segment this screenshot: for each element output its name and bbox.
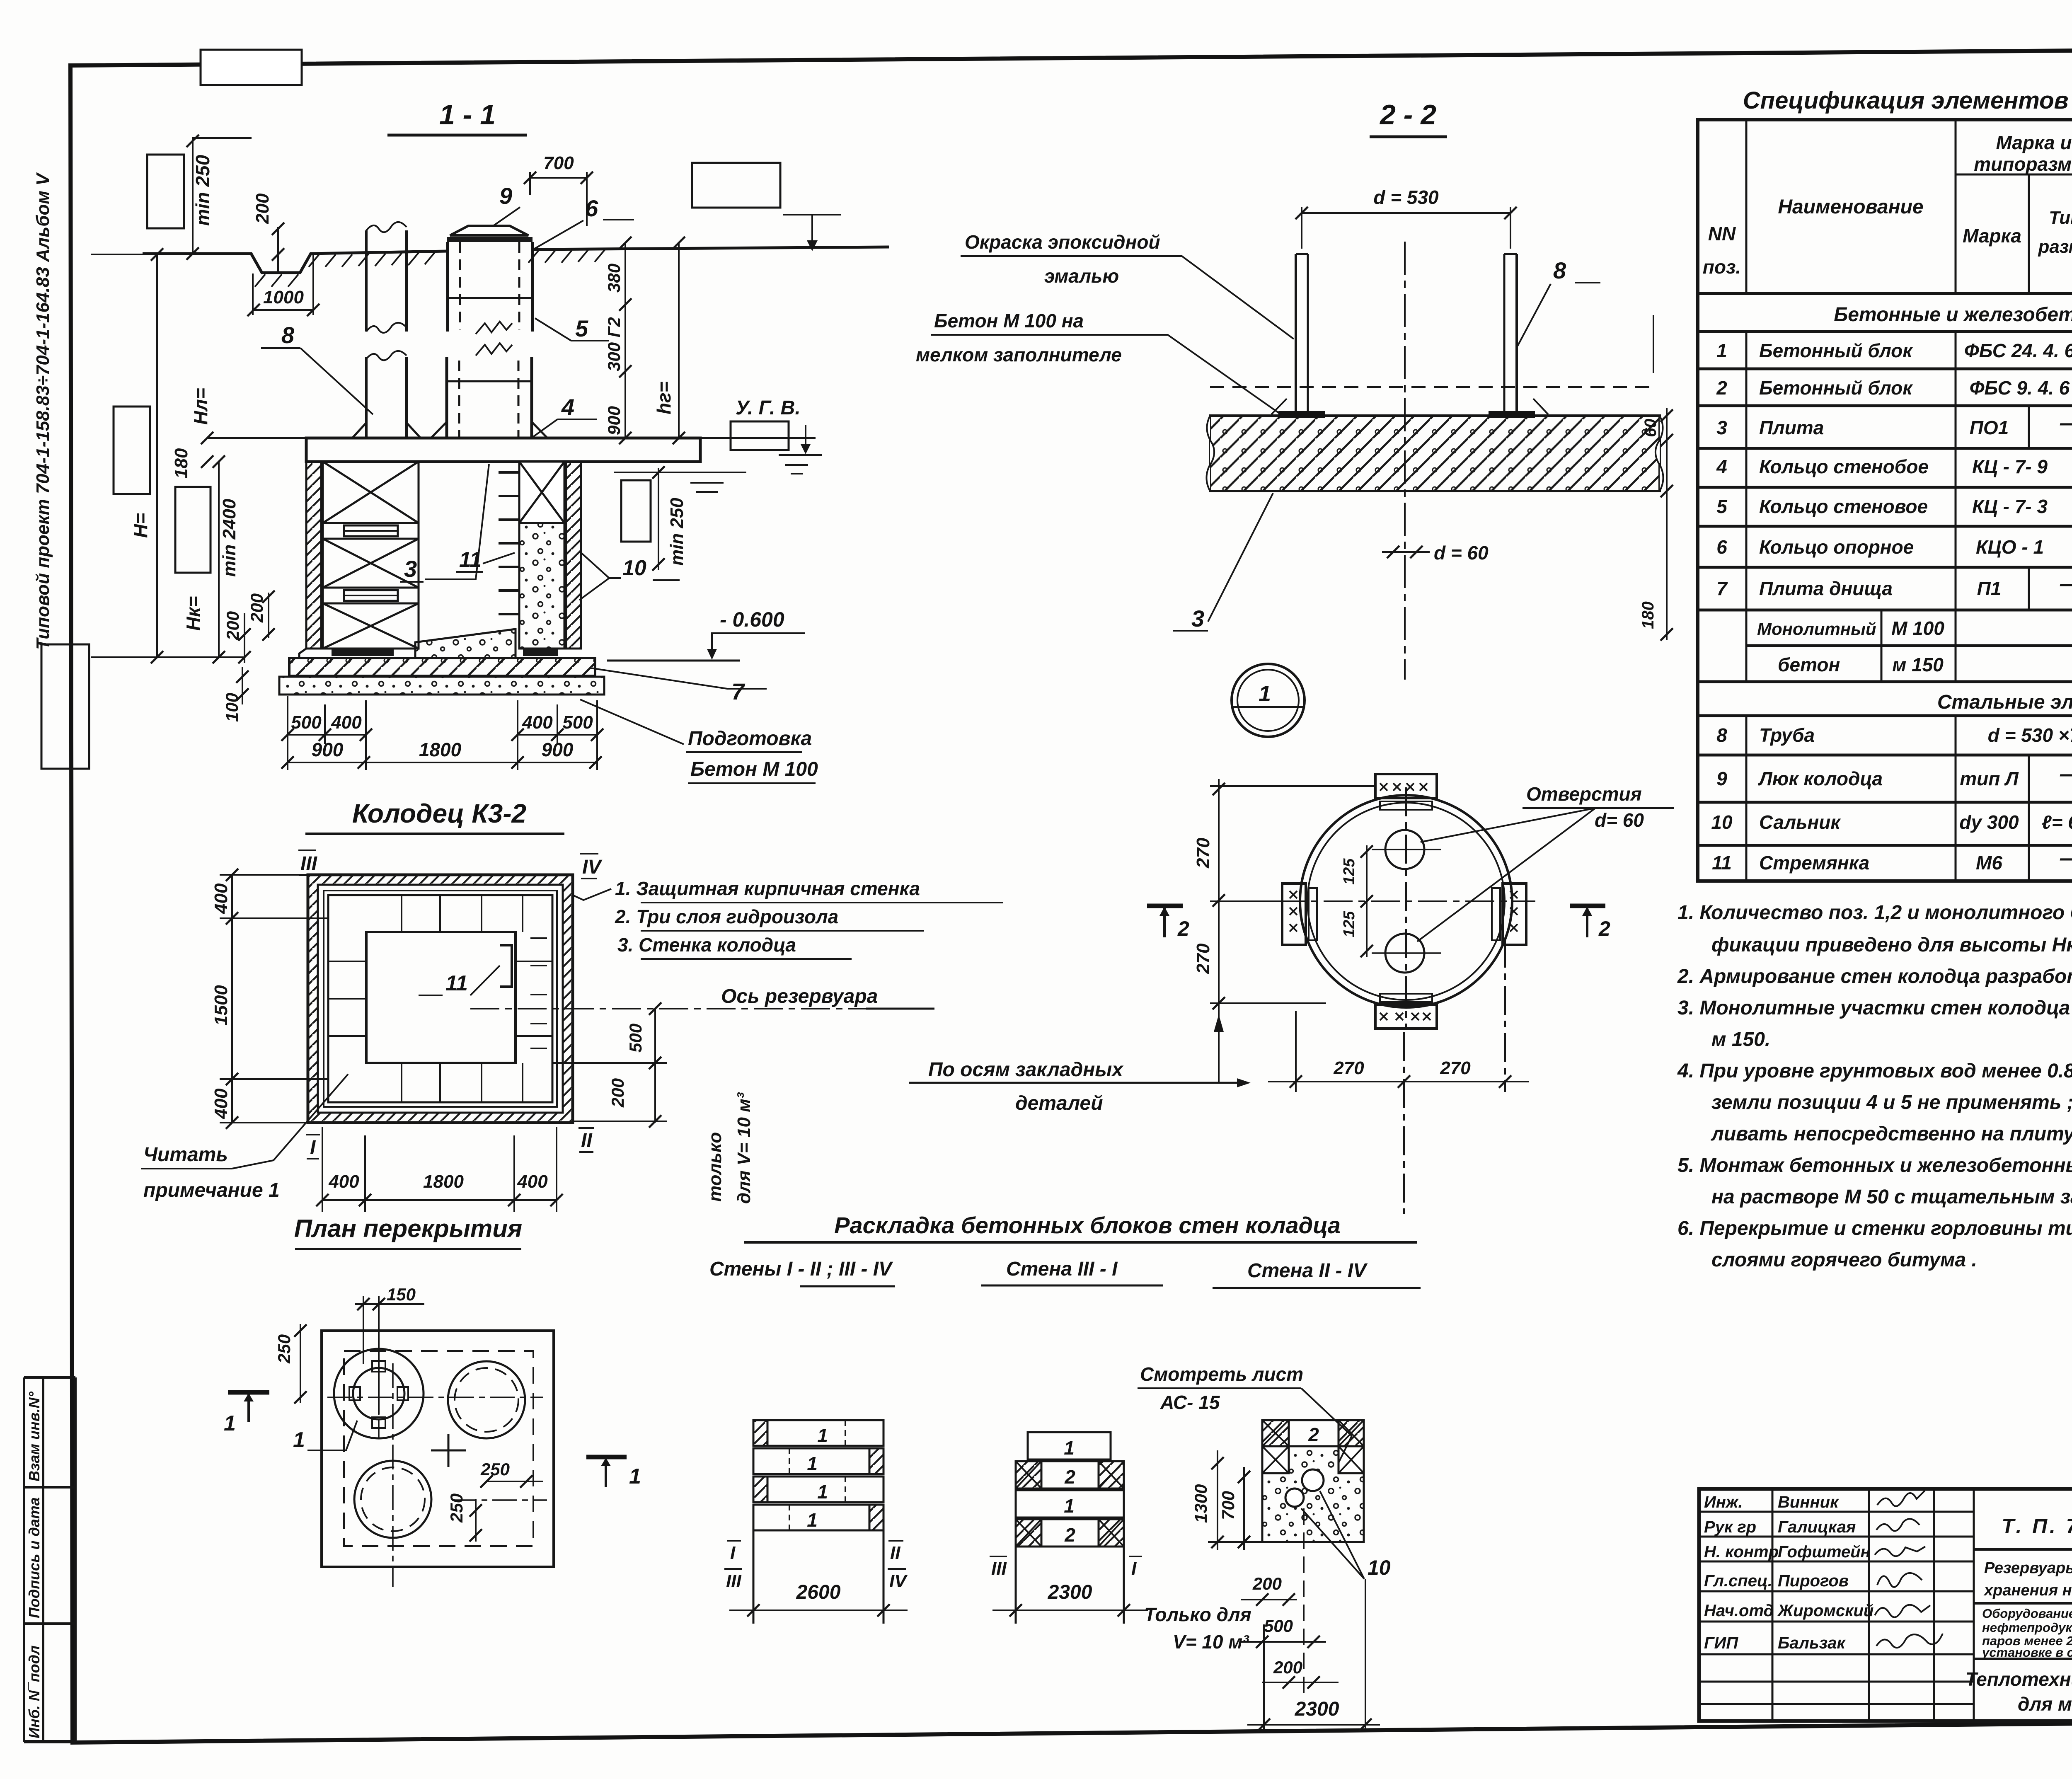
bottom dims 900 1800 900 [288,762,597,763]
svg-text:Кольцо стеновое: Кольцо стеновое [1759,496,1928,517]
svg-text:Типовой проект 704-1-158.8: Типовой проект 704-1-158.83÷704-1-164.83… [33,172,53,650]
svg-text:КЦ - 7- 9: КЦ - 7- 9 [1972,456,2048,477]
svg-text:—: — [2060,572,2072,596]
svg-text:Люк колодца: Люк колодца [1758,768,1883,789]
svg-text:ФБС 9. 4. 6 -т: ФБС 9. 4. 6 -т [1970,377,2072,399]
centerline [1404,242,1406,680]
svg-text:270: 270 [1193,837,1213,869]
svg-text:3: 3 [1191,605,1204,632]
buried level dashed [1210,386,1658,388]
svg-text:9: 9 [1716,768,1727,789]
RASKLADKA [709,1212,1421,1731]
svg-text:250: 250 [274,1334,294,1364]
svg-text:ФБС 24. 4. 6 -т: ФБС 24. 4. 6 -т [1964,340,2072,361]
svg-text:10: 10 [1711,811,1733,833]
well ring plan outer circle [1300,795,1512,1007]
svg-text:III: III [300,853,318,875]
svg-text:II: II [581,1130,593,1152]
PLAN1 [141,799,1003,1212]
svg-text:1: 1 [1064,1437,1075,1459]
water level symbol [805,425,806,444]
svg-text:нефтепродуктов с давлением: нефтепродуктов с давлением насыщенных [1982,1620,2072,1635]
svg-text:900: 900 [604,406,624,435]
svg-text:125: 125 [1341,858,1358,885]
bottom dim 270 270 [1268,1081,1529,1082]
left wall footing [299,649,366,658]
svg-text:поз.: поз. [1703,256,1741,278]
right wall hatched band [566,462,581,649]
svg-text:Оборудование резервуаров для: Оборудование резервуаров для хранения [1982,1606,2072,1621]
dim 700 [530,177,587,179]
svg-text:2: 2 [1598,917,1610,940]
svg-text:2. Армирование стен колодца: 2. Армирование стен колодца разработана … [1677,966,2072,988]
svg-text:Бетон М 100: Бетон М 100 [690,758,818,780]
ladder bracket poz 11 in plan [500,945,512,987]
diagram 1 wall edges [753,1530,755,1624]
signature squiggles [1875,1491,1943,1648]
embedded pad bottom [1375,1004,1437,1029]
section mark 2 right [1570,904,1605,908]
left wall X block 2 [323,539,419,588]
svg-text:Инб. N¯подл: Инб. N¯подл [26,1646,43,1738]
svg-text:Бетонный блок: Бетонный блок [1759,377,1913,399]
white patch box top [201,50,302,85]
svg-text:Сальник: Сальник [1759,811,1841,833]
svg-text:100: 100 [222,693,242,722]
svg-text:Нач.отд: Нач.отд [1704,1602,1774,1620]
svg-text:300 Г2: 300 Г2 [604,317,624,371]
svg-text:1300: 1300 [1191,1484,1210,1523]
pipe walls [1295,254,1297,416]
left wall base plate [332,649,394,656]
svg-text:min 250: min 250 [667,498,687,566]
centrelines [327,1397,543,1398]
svg-text:200: 200 [1252,1574,1282,1593]
section mark 2 left [1147,904,1183,908]
diagram 3 monolith body [1262,1446,1364,1542]
svg-text:1. Защитная кирпичная стенк: 1. Защитная кирпичная стенка [615,878,920,899]
gland holes [1302,1469,1324,1491]
svg-text:500: 500 [562,712,593,733]
svg-text:—: — [2060,846,2072,870]
svg-text:400: 400 [331,712,362,733]
svg-text:4: 4 [561,394,574,420]
SPECTABLE [1653,87,2072,881]
svg-text:Жиромский: Жиромский [1777,1602,1874,1620]
dim line Hk min 2400 [218,462,220,657]
dashes right band [530,938,547,1048]
svg-text:ПО1: ПО1 [1970,417,2009,438]
hole d60 lower [1385,934,1424,973]
svg-text:Взам инв.N°: Взам инв.N° [26,1392,43,1482]
dim 1000 trench width [253,309,314,311]
svg-text:Рук гр: Рук гр [1704,1518,1756,1536]
svg-text:1800: 1800 [419,739,462,760]
signature rows texts [1704,1493,1874,1652]
white patch box C [114,407,150,494]
manhole circle with lugs [334,1349,424,1438]
svg-text:фикации приведено для высо: фикации приведено для высоты Нк = 2.4 м [1711,934,2072,956]
svg-text:2: 2 [1064,1524,1075,1546]
svg-text:2 - 2: 2 - 2 [1379,99,1436,131]
white patch box G [621,480,651,542]
dim 150 [355,1303,424,1305]
svg-text:Теплотехничрский колодец К3: Теплотехничрский колодец К3-2 [1965,1668,2072,1690]
PLAN2 [224,1215,641,1587]
svg-text:2: 2 [1064,1466,1075,1488]
svg-text:150: 150 [387,1285,416,1304]
svg-text:200: 200 [1273,1658,1302,1677]
hole circle bottom [354,1461,431,1538]
svg-text:8: 8 [1716,724,1727,746]
steel pipe poz 8 riser [365,230,368,332]
ground hatch ticks [255,249,605,287]
white patch box under UGV [731,421,789,450]
svg-text:IV: IV [582,856,603,878]
svg-text:400: 400 [211,1088,231,1119]
svg-text:У. Г. В.: У. Г. В. [736,397,801,419]
svg-text:1: 1 [293,1428,305,1452]
pipe base plates [1278,411,1325,418]
svg-text:КЦ - 7- 3: КЦ - 7- 3 [1972,496,2048,517]
svg-text:min 250: min 250 [192,155,213,226]
left wall joint plate 2 [344,590,398,601]
svg-text:6. Перекрытие и стенки гор: 6. Перекрытие и стенки горловины тщатель… [1677,1217,2072,1239]
signature table grid [1699,1489,1974,1721]
dim 125 125 [1366,845,1368,957]
dim 250 left [300,1324,301,1403]
svg-text:V= 10 м³: V= 10 м³ [1173,1631,1249,1653]
svg-text:Стальные элементы: Стальные элементы [1937,691,2072,713]
svg-text:тип Л: тип Л [1960,768,2019,789]
svg-text:8: 8 [281,322,295,348]
svg-text:Кольцо стенобое: Кольцо стенобое [1759,456,1929,477]
hole d60 upper [1385,830,1424,869]
svg-text:Типо: Типо [2049,208,2072,228]
svg-text:d= 60: d= 60 [1595,809,1644,831]
slab plan inner dashed square [344,1351,533,1546]
svg-text:1: 1 [807,1453,818,1474]
SEC22 [916,99,1673,680]
svg-text:1: 1 [1259,681,1271,706]
water table line right [614,472,746,473]
TITLEBLOCK [1699,1489,2072,1721]
svg-text:I: I [730,1543,736,1563]
svg-text:500: 500 [1264,1616,1293,1636]
svg-text:11: 11 [1712,852,1732,874]
svg-text:I: I [310,1137,316,1159]
svg-text:эмалью: эмалью [1044,265,1119,287]
svg-text:Стена III - I: Стена III - I [1006,1258,1118,1280]
svg-text:Нл=: Нл= [190,388,211,425]
dim min 250 left [192,137,194,254]
svg-text:Кольцо опорное: Кольцо опорное [1759,536,1914,558]
upper ring column poz 5,6 [446,242,449,332]
white patch box B [175,487,211,573]
ugv marker top [783,214,841,215]
svg-text:Смотреть лист: Смотреть лист [1140,1363,1303,1385]
svg-text:земли позиции 4 и 5 не п: земли позиции 4 и 5 не применять ; позиц… [1711,1092,2072,1113]
svg-text:2600: 2600 [796,1581,841,1603]
svg-text:III: III [991,1559,1007,1579]
section mark 1 left [228,1390,269,1395]
svg-text:3. Монолитные участки стен: 3. Монолитные участки стен колодца выпол… [1677,997,2072,1019]
svg-text:I: I [1131,1559,1137,1579]
LEFTBAR [24,172,75,1742]
small cross center [431,1450,466,1452]
svg-text:270: 270 [1440,1058,1471,1078]
svg-text:П1: П1 [1977,578,2002,599]
svg-text:2300: 2300 [1295,1698,1339,1720]
svg-text:Нк=: Нк= [182,596,204,631]
svg-text:Стремянка: Стремянка [1759,852,1869,874]
svg-text:По осям закладных: По осям закладных [928,1059,1124,1081]
svg-text:Гл.спец.: Гл.спец. [1704,1572,1772,1590]
svg-text:250: 250 [447,1493,466,1523]
left margin stamp boxes [24,1376,75,1379]
svg-text:IV: IV [889,1571,908,1591]
right wall base plate [523,649,558,656]
svg-text:1: 1 [817,1425,828,1446]
right dim chain 380 300 900 [625,243,626,438]
svg-text:Бальзак: Бальзак [1778,1634,1846,1652]
svg-text:ℓ= 600: ℓ= 600 [2042,811,2072,833]
left dim chain 400 1500 400 [231,875,233,1123]
svg-text:9: 9 [499,183,512,209]
podgotovka layer [279,677,604,695]
ladder rungs poz 11 [499,472,519,614]
svg-text:2: 2 [1716,377,1727,399]
title block outer frame [1699,1489,2072,1721]
svg-text:min 2400: min 2400 [219,499,240,577]
svg-text:700: 700 [543,153,574,173]
svg-text:м 150: м 150 [1892,654,1944,675]
svg-text:Отверстия: Отверстия [1526,783,1642,805]
svg-text:Марка и: Марка и [1996,132,2072,153]
svg-text:1: 1 [224,1411,236,1435]
svg-text:1500: 1500 [211,985,231,1026]
cover slab poz 3 [208,437,816,439]
svg-text:1: 1 [817,1481,828,1503]
left wall hatched brick band [306,462,321,649]
svg-text:Плита днища: Плита днища [1759,578,1893,599]
dim line H [156,254,158,657]
svg-text:5: 5 [1716,496,1728,517]
embedded pad left [1282,883,1306,945]
svg-text:400: 400 [328,1171,359,1192]
svg-text:Бетонные и железобетонные: Бетонные и железобетонные элементы [1834,304,2072,326]
svg-text:1000: 1000 [263,287,304,307]
svg-text:Колодец К3-2: Колодец К3-2 [352,799,526,828]
svg-text:8: 8 [1553,257,1566,283]
data rows horizontals [1698,332,2072,845]
ground line [143,251,448,273]
svg-text:Н=: Н= [130,513,151,538]
svg-text:Труба: Труба [1759,724,1815,746]
diagram 2 block rows [1016,1432,1124,1547]
svg-text:только: только [705,1132,725,1202]
svg-text:10: 10 [622,556,646,580]
svg-text:180: 180 [1639,601,1657,629]
svg-text:1: 1 [629,1464,641,1489]
bottom dim 400 1800 400 [322,1199,557,1201]
dim 1300 [1217,1450,1218,1550]
svg-text:200: 200 [223,611,242,641]
foundation slab hatched [1210,416,1660,491]
svg-text:Стены I - II ; III - IV: Стены I - II ; III - IV [709,1258,893,1280]
right wall monolith dotted [519,462,564,649]
left wall X block 3 [323,603,419,649]
svg-text:500: 500 [291,712,322,733]
NOTES [1677,902,2072,1271]
svg-text:III: III [726,1571,741,1591]
svg-text:d = 530 ×7: d = 530 ×7 [1988,724,2072,746]
embedded pad right [1503,883,1526,945]
hydroinsulation line [324,891,557,1107]
svg-text:6: 6 [1716,536,1727,558]
section mark 1 right [586,1455,627,1460]
svg-text:2300: 2300 [1048,1581,1092,1603]
svg-text:Марка: Марка [1963,225,2021,247]
svg-text:Читать: Читать [143,1144,228,1166]
dims 200 200 footing [238,628,251,641]
left dim 270 270 [1218,779,1220,1083]
svg-text:1 - 1: 1 - 1 [439,99,496,131]
svg-text:КЦО - 1: КЦО - 1 [1976,536,2044,558]
svg-text:слоями горячего битума .: слоями горячего битума . [1711,1249,1977,1271]
svg-text:1800: 1800 [423,1171,464,1192]
svg-text:6: 6 [585,195,598,221]
svg-text:Винник: Винник [1778,1493,1839,1511]
svg-text:200: 200 [252,193,273,224]
svg-text:Раскладка бетонных блоков с: Раскладка бетонных блоков стен коладца [834,1212,1341,1238]
data rows verticals [1746,332,2072,881]
svg-text:примечание 1: примечание 1 [143,1179,280,1201]
svg-text:700: 700 [1218,1491,1238,1520]
svg-text:1: 1 [1064,1495,1075,1517]
well inner opening [366,932,516,1063]
SEC11 [41,50,889,783]
svg-text:10: 10 [1368,1556,1391,1579]
right dims 500 200 [654,1009,656,1123]
svg-text:250: 250 [480,1460,510,1479]
hole circle top right [448,1361,525,1438]
lower ring poz 4 [445,357,448,438]
right dims 60 180 [1666,408,1668,640]
right wall top X block [519,462,564,523]
weld marks [1271,399,1287,414]
svg-text:Инж.: Инж. [1704,1493,1743,1511]
block wall outer line [328,895,552,1102]
svg-text:4: 4 [1716,456,1727,477]
svg-text:Бетонный блок: Бетонный блок [1759,340,1913,361]
dim 180 slab [201,432,213,444]
svg-text:для мокрых грунтов.: для мокрых грунтов. [2018,1693,2072,1715]
svg-text:d = 530: d = 530 [1373,186,1439,208]
svg-text:—: — [2060,762,2072,786]
svg-text:бетон: бетон [1778,654,1840,675]
svg-text:3: 3 [404,556,417,582]
svg-text:Спецификация элементов на: Спецификация элементов на монтажную схем… [1743,87,2072,114]
svg-text:Плита: Плита [1759,417,1824,438]
svg-text:Стена II - IV: Стена II - IV [1247,1260,1368,1282]
detail bubble 1 [1232,664,1305,737]
svg-text:ГИП: ГИП [1704,1634,1738,1652]
screed wedge [415,629,516,658]
svg-text:Подготовка: Подготовка [688,728,812,750]
centrelines [1405,787,1407,1030]
diagram 2 wall edges [1015,1547,1017,1624]
svg-text:М 100: М 100 [1891,617,1944,639]
embedded pad top [1375,774,1437,798]
brick protection band hatched [308,875,573,885]
svg-text:Т. П. 704 - 1 -158. 83÷704-1: Т. П. 704 - 1 -158. 83÷704-1-164.83 ЛС [2002,1515,2072,1538]
spec table grid [1698,120,2072,881]
dim 100 podgotovka [236,670,249,683]
svg-text:деталей: деталей [1015,1092,1103,1114]
svg-text:Н. контр: Н. контр [1704,1543,1779,1561]
svg-text:Подпись и дата: Подпись и дата [26,1497,43,1618]
svg-text:ливать непосредственно на п: ливать непосредственно на плиту перекрыт… [1711,1123,2072,1145]
svg-text:270: 270 [1333,1058,1364,1078]
svg-text:2. Три слоя гидроизола: 2. Три слоя гидроизола [615,906,838,927]
svg-text:мелком заполнителе: мелком заполнителе [916,344,1122,365]
svg-text:Ось резервуара: Ось резервуара [721,985,878,1007]
svg-text:500: 500 [626,1024,645,1053]
white patch box F [692,163,780,208]
white patch box A [147,155,184,228]
diagram 1 block rows [753,1420,884,1530]
left wall blocks column [323,462,419,649]
svg-text:—: — [2060,411,2072,435]
svg-text:хранения нефтепродуктов емко: хранения нефтепродуктов емкостью 3,5, 10… [1983,1582,2072,1599]
svg-text:hг=: hг= [653,381,675,414]
svg-text:60: 60 [1641,419,1660,438]
svg-text:4. При уровне грунтовых во: 4. При уровне грунтовых вод менее 0.8 м … [1677,1060,2072,1082]
dim 700 [1243,1467,1245,1550]
svg-text:5: 5 [575,315,588,341]
svg-text:200: 200 [608,1078,627,1108]
dim d=530 [1302,212,1510,214]
svg-text:180: 180 [171,448,191,479]
leader to note 1 [573,889,611,900]
svg-text:на растворе М 50 с тщатель: на растворе М 50 с тщательным заполнение… [1711,1186,2072,1208]
svg-text:125: 125 [1341,911,1358,937]
svg-text:Только для: Только для [1144,1604,1251,1625]
manhole cover [450,226,528,235]
svg-text:dy 300: dy 300 [1959,811,2019,833]
svg-text:План перекрытия: План перекрытия [294,1215,522,1242]
svg-text:3. Стенка колодца: 3. Стенка колодца [617,934,796,956]
svg-text:1. Количество поз. 1,2 и: 1. Количество поз. 1,2 и монолитного бет… [1677,902,2072,924]
svg-text:Пирогов: Пирогов [1778,1572,1849,1590]
right dim chain hg [678,243,680,438]
svg-text:5. Монтаж бетонных и желез: 5. Монтаж бетонных и железобетонных конс… [1677,1155,2072,1176]
svg-text:11: 11 [445,971,468,995]
svg-text:7: 7 [1716,578,1728,599]
svg-text:М6: М6 [1976,852,2002,874]
left small dims of section 2-2 slab [1653,315,1654,373]
svg-text:- 0.600: - 0.600 [720,608,784,631]
svg-text:400: 400 [211,883,231,914]
svg-text:270: 270 [1193,943,1213,974]
svg-text:200: 200 [247,593,266,623]
CIRCPLAN [909,664,1674,1214]
svg-text:установке в сухих и мокрых: установке в сухих и мокрых грунтах. [1981,1645,2072,1660]
svg-text:2: 2 [1177,917,1189,940]
svg-text:900: 900 [312,739,344,760]
bottom dims 500 400 / 400 500 [288,696,597,770]
